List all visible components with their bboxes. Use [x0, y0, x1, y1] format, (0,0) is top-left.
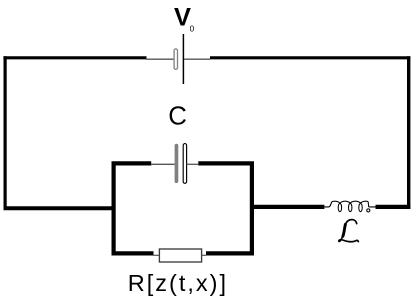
- svg-text:C: C: [168, 103, 187, 131]
- svg-text:0: 0: [190, 24, 195, 33]
- svg-text:V: V: [174, 3, 191, 31]
- svg-text:R[z(t,x)]: R[z(t,x)]: [128, 270, 228, 296]
